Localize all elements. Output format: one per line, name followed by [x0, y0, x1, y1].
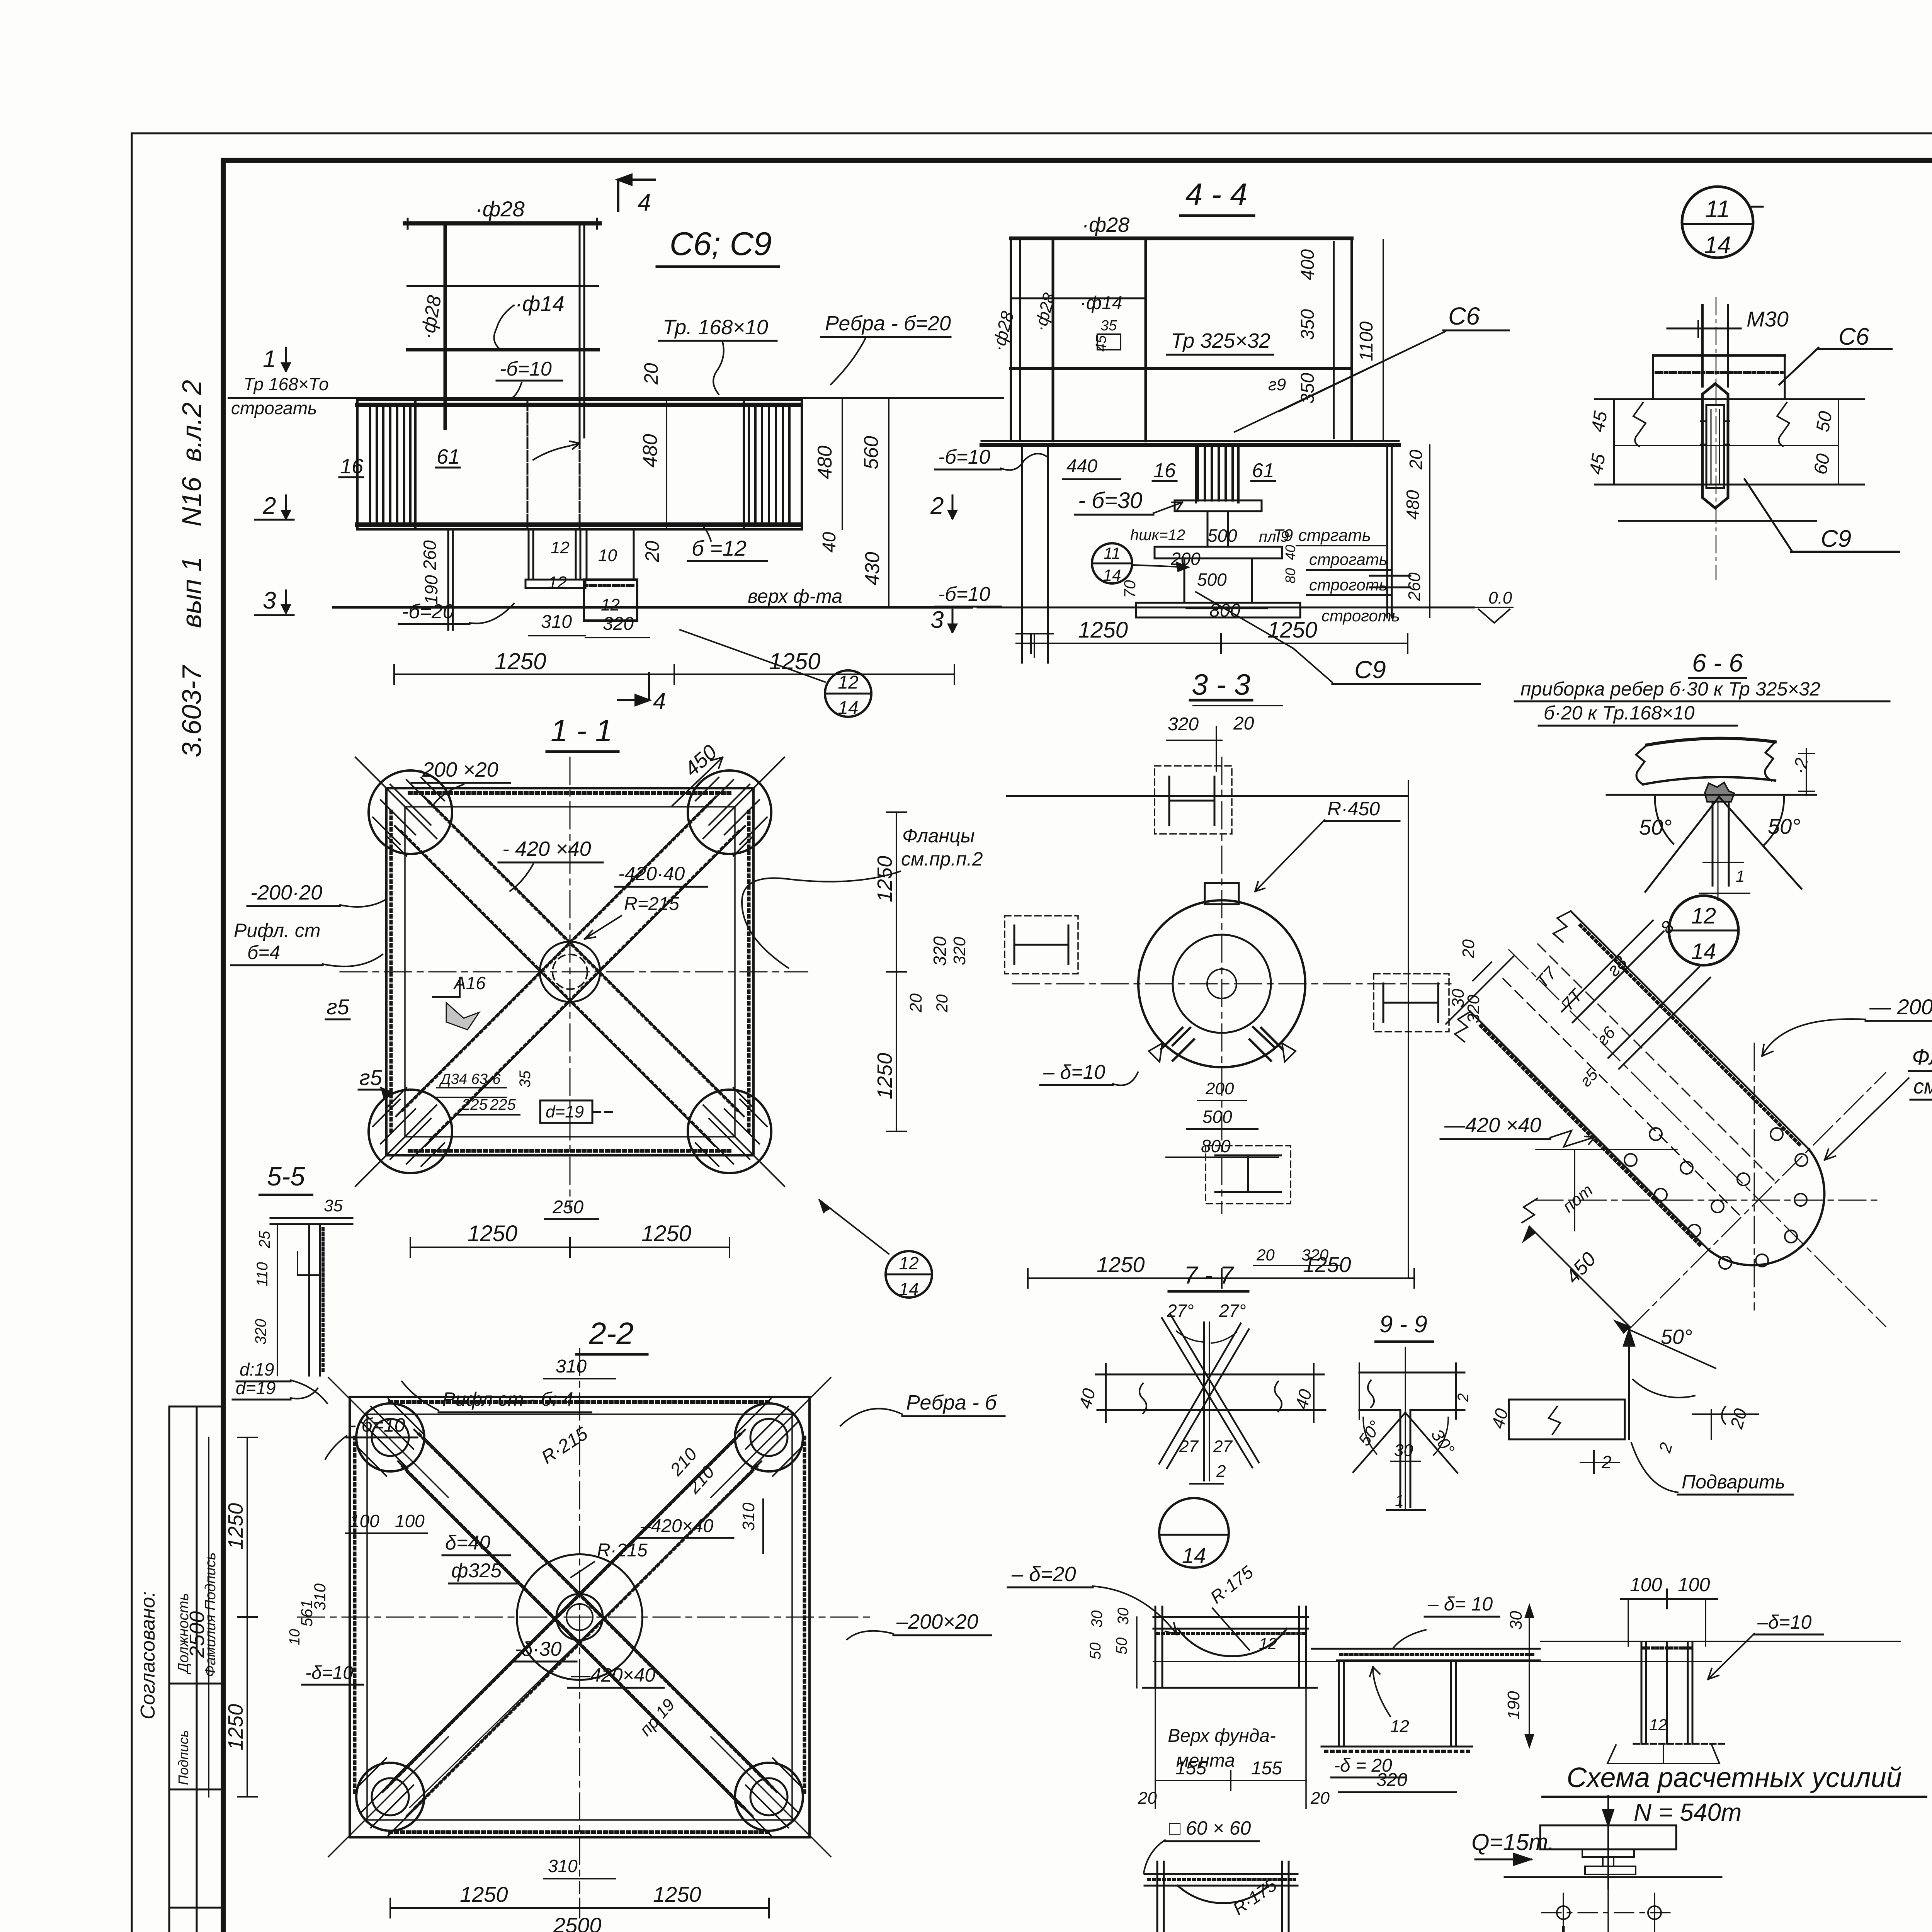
svg-text:20: 20 [1406, 449, 1426, 470]
svg-text:20: 20 [1459, 939, 1478, 959]
svg-text:1250: 1250 [224, 1503, 247, 1549]
svg-text:–200×20: –200×20 [896, 1610, 978, 1633]
inner band square [405, 807, 735, 1137]
svg-text:б=4: б=4 [247, 942, 280, 963]
svg-text:320: 320 [603, 614, 634, 634]
long base top line [1541, 1641, 1900, 1642]
section mark 4 top [618, 180, 655, 211]
svg-text:20: 20 [1138, 1789, 1157, 1808]
svg-text:11: 11 [1104, 544, 1121, 562]
svg-text:–δ=10: –δ=10 [1757, 1611, 1812, 1633]
svg-text:ф325: ф325 [451, 1560, 502, 1582]
dims right 50 60 [1838, 399, 1839, 485]
bottom dim 1-1 [410, 1247, 730, 1248]
bolt pattern [1563, 1893, 1564, 1932]
svg-text:16: 16 [1153, 459, 1176, 482]
svg-text:·ф28: ·ф28 [1082, 213, 1129, 236]
svg-text:верх ф-та: верх ф-та [748, 585, 842, 607]
svg-text:30: 30 [1115, 1608, 1132, 1625]
svg-text:50°: 50° [1639, 815, 1672, 839]
svg-text:1250: 1250 [468, 1221, 517, 1246]
svg-text:480: 480 [1403, 490, 1423, 520]
circle 14 empty top [1159, 1498, 1229, 1568]
9-9 50deg rays [1353, 1413, 1458, 1473]
svg-text:50: 50 [1087, 1643, 1104, 1660]
svg-text:Рифл ст - б: 4: Рифл ст - б: 4 [442, 1388, 573, 1410]
serrated band below 4-4 frame [981, 443, 1399, 447]
svg-text:□ 60 × 60: □ 60 × 60 [1169, 1817, 1251, 1839]
svg-text:стргать: стргать [1298, 526, 1371, 545]
curved top plate 6-6 [1647, 738, 1775, 745]
svg-text:-200·20: -200·20 [250, 881, 322, 904]
svg-text:2: 2 [930, 493, 944, 519]
svg-text:3.603-7 вып 1 N16 в.л.: 3.603-7 вып 1 N16 в.л.2 2 [177, 380, 207, 757]
svg-text:– δ=10: – δ=10 [1043, 1061, 1105, 1083]
railing posts [444, 223, 447, 428]
dim 450 diagonal [1529, 1226, 1630, 1327]
svg-text:12: 12 [1691, 903, 1716, 929]
svg-text:12: 12 [838, 672, 858, 693]
svg-text:12: 12 [1649, 1716, 1667, 1734]
svg-text:0.0: 0.0 [1488, 588, 1512, 607]
svg-text:г5: г5 [359, 1065, 383, 1090]
rails in 4-4 [1011, 298, 1146, 299]
svg-text:-200 ×20: -200 ×20 [415, 758, 498, 781]
dim 320 [1339, 1791, 1456, 1793]
railing mid rails [408, 285, 598, 287]
dims 70 1250 1250 [1031, 643, 1408, 644]
svg-text:60: 60 [1810, 452, 1834, 476]
svg-text:Тр 168×То: Тр 168×То [243, 374, 329, 394]
9-9 plates [1359, 1372, 1464, 1374]
right column 4-4 [1386, 445, 1388, 617]
svg-text:310: 310 [556, 1356, 587, 1377]
svg-text:-б=10: -б=10 [938, 583, 990, 605]
50deg arcs 6-6 [1655, 797, 1673, 844]
svg-text:12: 12 [548, 573, 567, 592]
left column below body [447, 529, 449, 630]
svg-text:14: 14 [1182, 1543, 1206, 1568]
break zigzags [1633, 403, 1789, 446]
svg-text:500: 500 [1202, 1107, 1232, 1127]
svg-text:-б=20: -б=20 [402, 600, 454, 623]
top key tab [1205, 883, 1239, 904]
svg-text:14: 14 [899, 1279, 918, 1299]
member centerline diag [1509, 950, 1886, 1327]
foundation line [1153, 1661, 1721, 1662]
svg-text:14: 14 [1103, 566, 1121, 584]
svg-text:1250: 1250 [653, 1882, 701, 1906]
svg-text:480: 480 [814, 446, 836, 479]
svg-text:1250: 1250 [873, 1053, 896, 1099]
svg-text:Фланцы: Фланцы [902, 825, 975, 847]
svg-text:—420 ×40: —420 ×40 [1444, 1114, 1541, 1137]
svg-text:4 - 4: 4 - 4 [1185, 177, 1247, 211]
svg-text:1: 1 [263, 346, 276, 372]
inner web verticals [527, 400, 529, 529]
svg-text:Т9: Т9 [1273, 526, 1293, 545]
svg-text:40: 40 [1282, 545, 1298, 560]
svg-text:20: 20 [933, 994, 951, 1013]
plates stack under center column [1175, 500, 1262, 511]
left dims 2500/1250 [247, 1437, 248, 1797]
svg-text:3: 3 [930, 607, 944, 633]
svg-text:d=19: d=19 [546, 1102, 584, 1121]
svg-text:б =12: б =12 [692, 536, 747, 560]
svg-text:61: 61 [437, 445, 460, 468]
svg-text:С6: С6 [1838, 323, 1869, 350]
svg-text:- б=30: - б=30 [1078, 488, 1142, 513]
svg-text:350: 350 [1298, 309, 1318, 340]
main body outline [357, 400, 802, 529]
foundation top line [333, 606, 972, 609]
svg-text:320: 320 [1168, 714, 1199, 735]
svg-text:4: 4 [638, 189, 651, 216]
square outline 1-1 [386, 788, 753, 1155]
svg-text:—420×40: —420×40 [571, 1664, 655, 1686]
svg-text:225: 225 [490, 1096, 516, 1113]
svg-text:– δ= 10: – δ= 10 [1427, 1593, 1493, 1615]
svg-text:1 - 1: 1 - 1 [551, 713, 612, 748]
svg-text:480: 480 [639, 434, 662, 468]
svg-text:строготь: строготь [1309, 576, 1388, 594]
left margin stamp column lines [168, 1406, 170, 1932]
svg-text:100: 100 [395, 1511, 425, 1531]
svg-text:320: 320 [1376, 1770, 1407, 1790]
9-9 centerline [1405, 1347, 1406, 1509]
detail C column plates [1641, 1643, 1643, 1744]
svg-text:800: 800 [1209, 600, 1240, 621]
svg-text:350: 350 [1298, 373, 1318, 404]
right end plate block [749, 406, 789, 526]
svg-text:12: 12 [899, 1253, 918, 1273]
top plate [1153, 1616, 1308, 1618]
bottom dims A [1155, 1780, 1306, 1781]
svg-text:— 200×20: — 200×20 [1869, 995, 1932, 1019]
svg-text:1250: 1250 [641, 1221, 691, 1246]
svg-text:1100: 1100 [1356, 321, 1377, 361]
50deg rays 6-6 [1645, 797, 1719, 892]
7-7 plate band [1096, 1374, 1324, 1376]
bolt centerline [1716, 298, 1717, 580]
member edges [1571, 911, 1809, 1149]
svg-text:R·450: R·450 [1327, 798, 1380, 820]
svg-text:50: 50 [1113, 1638, 1130, 1655]
svg-text:100: 100 [1678, 1574, 1710, 1595]
I-beam section left [1005, 916, 1078, 974]
svg-text:2500: 2500 [553, 1913, 602, 1932]
svg-text:С9: С9 [1354, 656, 1386, 684]
svg-text:Подпись: Подпись [175, 1730, 191, 1785]
svg-text:155: 155 [1251, 1758, 1282, 1779]
svg-text:50°: 50° [1768, 814, 1801, 838]
svg-text:1250: 1250 [460, 1882, 508, 1906]
ground line 4-4 [978, 607, 1474, 609]
svg-text:R=215: R=215 [624, 894, 679, 914]
svg-text:Фланец ф4: Фланец ф4 [1912, 1044, 1932, 1070]
svg-text:N = 540т: N = 540т [1634, 1798, 1742, 1826]
svg-text:б·20 к Тр.168×10: б·20 к Тр.168×10 [1544, 702, 1695, 724]
svg-text:-420·40: -420·40 [618, 863, 685, 884]
svg-text:1250: 1250 [873, 856, 896, 902]
svg-text:440: 440 [1066, 456, 1097, 476]
svg-text:20: 20 [641, 541, 663, 563]
top chord line [229, 397, 1003, 399]
svg-text:12: 12 [601, 595, 620, 614]
right column plate box [586, 529, 588, 580]
svg-text:80: 80 [1282, 568, 1298, 583]
big frame rect [1011, 238, 1352, 441]
svg-text:155: 155 [1175, 1758, 1206, 1779]
svg-text:27: 27 [1213, 1437, 1233, 1456]
svg-text:10: 10 [287, 1629, 303, 1645]
zero level mark [1476, 607, 1513, 623]
svg-text:40: 40 [819, 532, 840, 553]
svg-text:4: 4 [653, 688, 666, 714]
railing verticals in 4-4 [1019, 238, 1021, 441]
svg-text:9 - 9: 9 - 9 [1379, 1311, 1427, 1338]
svg-text:50°: 50° [1661, 1325, 1692, 1349]
svg-text:1: 1 [1395, 1492, 1404, 1510]
svg-text:310: 310 [541, 612, 572, 632]
upper break zigzag [1455, 911, 1571, 1042]
svg-text:20: 20 [906, 993, 925, 1013]
svg-text:35: 35 [1100, 318, 1117, 334]
web 6-6 [1712, 802, 1714, 886]
svg-text:Ребра - б: Ребра - б [906, 1391, 997, 1414]
svg-text:250: 250 [552, 1197, 583, 1218]
7-7 X diagonals [1159, 1314, 1259, 1468]
svg-text:-δ·30: -δ·30 [515, 1638, 561, 1660]
circle 11/14 top [1682, 187, 1753, 258]
rounded end cap [1708, 1149, 1824, 1265]
bottom serration [357, 522, 802, 527]
circle 12/14 near 1-1 [819, 1200, 889, 1254]
svg-text:225: 225 [461, 1096, 488, 1113]
svg-text:12: 12 [1390, 1717, 1409, 1736]
svg-text:5-5: 5-5 [267, 1162, 305, 1191]
svg-text:310: 310 [548, 1856, 578, 1876]
center column below body [528, 529, 530, 580]
svg-text:1250: 1250 [224, 1704, 247, 1750]
bottom dim 3-3 [1028, 1277, 1414, 1279]
svg-text:61: 61 [1252, 459, 1274, 482]
svg-text:1250: 1250 [1078, 617, 1128, 643]
svg-text:3: 3 [263, 587, 276, 614]
svg-text:2500: 2500 [185, 1611, 209, 1658]
svg-text:δ=40: δ=40 [445, 1532, 490, 1554]
joint horizontals [1595, 398, 1864, 400]
serrations 2-2 [390, 1400, 769, 1404]
left end plate block [370, 406, 410, 526]
svg-text:·ф28: ·ф28 [475, 197, 525, 221]
svg-text:·ф14: ·ф14 [1080, 293, 1122, 313]
right vertical dims 1250 1250 [896, 812, 897, 1131]
svg-text:430: 430 [861, 552, 884, 585]
serration on top edge [410, 791, 730, 795]
svg-text:400: 400 [1298, 249, 1318, 280]
svg-text:d:19: d:19 [240, 1359, 274, 1379]
corner rings 2-2 [356, 1403, 803, 1831]
svg-text:10: 10 [598, 546, 617, 565]
bottom dim 6-6 [1703, 862, 1743, 863]
serrations on edges [1580, 925, 1801, 1146]
svg-text:12: 12 [1259, 1634, 1277, 1653]
svg-text:М30: М30 [1747, 307, 1789, 331]
circles 3-3 [1138, 900, 1305, 1067]
svg-text:45: 45 [1586, 452, 1610, 476]
bottom dim line 1250 1250 [394, 673, 954, 675]
bolt holes around cap [1624, 1128, 1808, 1269]
inner dashed lines [1538, 944, 1777, 1184]
weld blob 6-6 [1705, 782, 1734, 802]
svg-text:20: 20 [640, 363, 662, 385]
vertical centerline [1754, 1043, 1755, 1310]
slab [1540, 1825, 1676, 1849]
leader to 12/14 circle [680, 630, 825, 682]
svg-text:3 - 3: 3 - 3 [1192, 668, 1250, 701]
svg-text:Подварить: Подварить [1682, 1471, 1785, 1493]
svg-text:1250: 1250 [1097, 1252, 1145, 1277]
svg-text:строгать: строгать [231, 398, 317, 418]
svg-text:С9: С9 [1821, 526, 1851, 552]
svg-text:14: 14 [1704, 232, 1731, 259]
side plates [1155, 1607, 1156, 1688]
svg-text:30: 30 [1394, 1441, 1413, 1460]
centerlines 1-1 [570, 757, 571, 1209]
svg-text:16: 16 [340, 455, 364, 478]
bolt body [1702, 384, 1728, 508]
centerlines 3-3 [1221, 757, 1223, 1213]
svg-text:Тр. 168×10: Тр. 168×10 [663, 316, 768, 339]
svg-text:260: 260 [1405, 572, 1424, 601]
9-9 web [1400, 1410, 1401, 1507]
diagonal braces 2-2 [383, 1430, 777, 1816]
corner diagonal stubs [355, 757, 437, 838]
svg-text:200: 200 [1205, 1079, 1234, 1098]
svg-text:320: 320 [950, 937, 969, 965]
svg-text:35: 35 [517, 1070, 534, 1088]
50 deg annotation [1628, 1330, 1630, 1439]
svg-text:560: 560 [860, 436, 883, 469]
svg-text:Тр 325×32: Тр 325×32 [1171, 329, 1270, 352]
svg-text:7 - 7: 7 - 7 [1184, 1261, 1234, 1289]
svg-text:30: 30 [1088, 1611, 1105, 1628]
svg-text:-δ=10: -δ=10 [305, 1663, 353, 1683]
svg-text:320: 320 [252, 1319, 269, 1345]
svg-text:35: 35 [324, 1196, 343, 1215]
bolt shank top [1701, 305, 1704, 386]
svg-text:800: 800 [1201, 1136, 1231, 1156]
svg-text:·ф14: ·ф14 [515, 291, 565, 316]
svg-text:Q=15т.: Q=15т. [1471, 1829, 1554, 1855]
7-7 center vertical pair [1203, 1322, 1205, 1481]
circle 12/14 first [825, 670, 871, 717]
left vertical helper line [1574, 1150, 1575, 1231]
svg-text:25: 25 [256, 1231, 273, 1248]
svg-text:14: 14 [838, 698, 858, 718]
svg-text:Согласовано:: Согласовано: [137, 1591, 159, 1719]
svg-text:приборка ребер б·30 к Тр 325×3: приборка ребер б·30 к Тр 325×32 [1520, 678, 1820, 700]
ground line [1505, 1876, 1721, 1878]
45deg gusset stubs [1161, 1027, 1282, 1061]
svg-text:см . пр.п 2.: см . пр.п 2. [1913, 1075, 1932, 1098]
circle 12/14 mid right [1669, 896, 1738, 965]
svg-text:320: 320 [930, 936, 950, 966]
svg-text:2-2: 2-2 [588, 1316, 634, 1350]
svg-text:С6; С9: С6; С9 [670, 226, 772, 262]
7-7 top arcs [1177, 1331, 1236, 1343]
svg-text:Рифл. ст: Рифл. ст [234, 920, 320, 941]
d=19 box [540, 1100, 592, 1123]
podvarit plate [1509, 1400, 1625, 1439]
left column 4-4 [1021, 445, 1023, 663]
circle 11/14 in 4-4 [1092, 543, 1132, 583]
dims left 45 45 [1613, 399, 1615, 485]
svg-text:320: 320 [1301, 1246, 1329, 1264]
svg-text:27°: 27° [1219, 1301, 1246, 1321]
svg-text:С6: С6 [1448, 302, 1480, 330]
svg-text:hшк=12: hшк=12 [1130, 527, 1185, 544]
I-beam section top [1155, 766, 1232, 834]
svg-text:2: 2 [1216, 1462, 1226, 1481]
svg-text:6 - 6: 6 - 6 [1692, 648, 1743, 677]
svg-text:А16: А16 [453, 973, 486, 993]
svg-text:Д34 63·6: Д34 63·6 [439, 1071, 501, 1087]
svg-text:14: 14 [1691, 939, 1716, 964]
svg-text:1250: 1250 [1267, 617, 1317, 643]
center rings 2-2 [556, 1594, 603, 1640]
svg-text:30: 30 [1507, 1611, 1526, 1630]
svg-text:190: 190 [1504, 1691, 1523, 1719]
pedestal [1582, 1849, 1583, 1857]
perpendicular centerline [1630, 1073, 1886, 1328]
svg-text:см.пр.п.2: см.пр.п.2 [901, 848, 983, 870]
svg-text:2: 2 [262, 493, 276, 519]
centerlines 2-2 [579, 1349, 580, 1893]
svg-text:-б=10: -б=10 [500, 358, 552, 380]
svg-text:Ребра - б=20: Ребра - б=20 [825, 312, 951, 335]
rounded crotch arcs 2-2 [535, 1554, 624, 1573]
svg-text:50: 50 [1813, 410, 1837, 434]
weld leader inside [533, 441, 580, 460]
svg-text:– δ=20: – δ=20 [1011, 1563, 1076, 1586]
R=175 arc [1178, 1629, 1287, 1656]
svg-text:110: 110 [254, 1262, 271, 1287]
square outline 2-2 [350, 1397, 810, 1837]
svg-text:строгать: строгать [1309, 550, 1388, 568]
svg-text:100: 100 [1630, 1574, 1662, 1595]
corner plate circles with hatch [369, 770, 771, 1173]
svg-text:70: 70 [1121, 580, 1139, 598]
transverse stiffeners [1562, 920, 1710, 1069]
svg-text:г9: г9 [1268, 375, 1286, 394]
center hatched column 4-4 [1198, 445, 1233, 500]
svg-text:20: 20 [1310, 1789, 1330, 1808]
section mark 4 bottom [618, 673, 649, 700]
svg-text:2: 2 [1455, 1393, 1472, 1402]
svg-text:R·215: R·215 [597, 1540, 648, 1561]
I-beam section bottom [1206, 1146, 1291, 1204]
svg-text:–420×40: –420×40 [640, 1516, 714, 1536]
svg-text:20: 20 [1256, 1246, 1275, 1264]
svg-text:260: 260 [420, 540, 440, 570]
svg-text:Верх фунда-: Верх фунда- [1168, 1726, 1276, 1746]
svg-text:100: 100 [350, 1511, 379, 1531]
svg-text:- 420 ×40: - 420 ×40 [502, 837, 591, 861]
svg-text:561: 561 [298, 1600, 316, 1627]
svg-text:310: 310 [739, 1502, 758, 1531]
